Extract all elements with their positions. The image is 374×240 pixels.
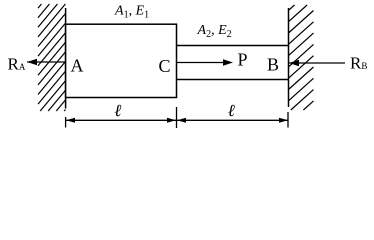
svg-text:A2, E2: A2, E2 xyxy=(197,23,232,40)
svg-text:ℓ: ℓ xyxy=(114,101,121,120)
svg-text:P: P xyxy=(238,50,248,70)
extension line at C xyxy=(176,107,178,128)
right wall face xyxy=(288,8,290,107)
reaction arrow RB xyxy=(289,60,345,67)
svg-text:C: C xyxy=(159,56,171,76)
svg-text:B: B xyxy=(267,55,279,75)
left wall face xyxy=(65,8,67,109)
force arrow P xyxy=(177,59,233,66)
dimension line AC xyxy=(66,118,176,123)
bar AC (A1,E1 segment) outline xyxy=(66,24,177,97)
svg-text:A1, E1: A1, E1 xyxy=(114,4,149,21)
svg-text:ℓ: ℓ xyxy=(228,101,235,120)
extension line at A xyxy=(65,117,67,128)
right wall hatching xyxy=(289,5,314,110)
left wall hatching xyxy=(38,4,66,111)
extension line at B xyxy=(287,112,289,128)
bar CB top edge xyxy=(177,45,289,47)
dimension line CB xyxy=(177,118,288,123)
bar CB bottom edge xyxy=(177,79,289,81)
svg-text:A: A xyxy=(71,56,84,76)
reaction arrow RA xyxy=(27,59,66,66)
